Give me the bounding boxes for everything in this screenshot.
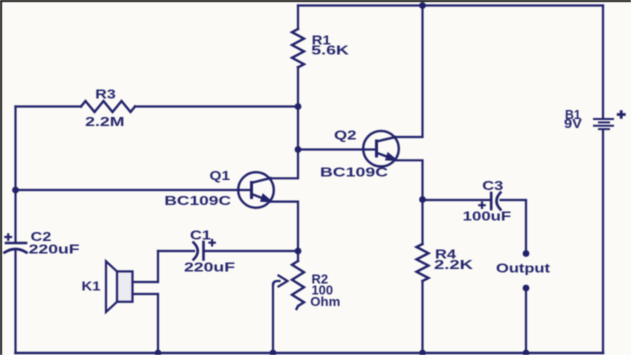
capacitor C1 straight plate [202,242,205,260]
wire: R2 top stub [297,251,299,261]
wire: R1 top stub from rail [297,6,299,30]
node: ground rail / R4 junction [419,350,426,355]
capacitor C2 bottom curved plate [5,249,27,253]
svg-text:R3: R3 [95,87,115,101]
resistor R1 5.6K zigzag [292,29,304,67]
svg-text:C1: C1 [190,229,211,243]
plus sign of battery [617,110,626,119]
wire: battery bottom segment to ground rail [602,130,604,354]
capacitor C3 straight plate [490,193,493,209]
svg-text:2.2K: 2.2K [434,258,473,272]
node: ground rail / speaker junction [155,350,162,355]
battery B1 9V [593,119,614,129]
wire: R2 wiper down to ground rail [272,284,274,353]
wire: R1 bottom to R3 junction [297,67,299,107]
svg-text:2.2M: 2.2M [85,115,124,129]
resistor R3 2.2M zigzag [81,101,135,112]
capacitor C3 curved plate [497,193,501,210]
svg-text:9V: 9V [564,117,583,131]
wire: R3 left segment [16,105,82,107]
plus sign of C3 [478,201,486,209]
node: left bus / Q1 base junction [12,187,19,194]
svg-text:BC109C: BC109C [164,194,231,208]
wire: speaker top terminal to C1 [133,251,159,282]
resistor R2 zigzag (variable) [292,261,304,309]
svg-text:K1: K1 [82,280,101,294]
top black border bar [0,0,631,2]
svg-text:5.6K: 5.6K [311,43,349,57]
wire: top positive supply rail [298,4,603,6]
wire: C1 right segment to junction [204,250,299,252]
node: Q1 emitter / C1 / R2 junction [295,248,302,255]
svg-text:220uF: 220uF [184,261,235,275]
svg-text:100uF: 100uF [463,209,512,223]
wire: left bus upper (R3 corner down to C2) [14,107,16,243]
wire: Q2 collector stub and up to top rail [397,6,423,138]
wiper arrow of R2 [273,276,288,287]
svg-text:Q1: Q1 [210,169,231,183]
node: ground rail / output junction [523,350,530,355]
svg-text:220uF: 220uF [29,242,80,256]
wire: Q1 base wire from left bus [16,189,252,191]
node: Q2 emitter / C3 / R4 junction [419,196,426,203]
svg-text:Ohm: Ohm [310,295,340,309]
wire: Q1 emitter stub and down to C1 junction [271,202,298,251]
transistor Q2 BC109C [363,131,399,167]
wire: C1 left segment [158,250,194,252]
wire: bottom ground rail [16,352,604,355]
node: Q1 collector / Q2 base junction [295,146,302,153]
resistor R4 2.2K zigzag [417,244,429,281]
capacitor C1 curved plate [194,243,198,260]
node: ground rail / R2 wiper junction [270,350,277,355]
wire: R4 top stub from C3 junction [421,200,423,245]
wire: Q2 base wire from junction [298,148,377,150]
wire: speaker bottom terminal to ground rail [133,294,159,353]
wire: Q2 emitter stub and down to C3 junction [397,160,423,199]
svg-text:C3: C3 [482,179,503,193]
node: R3 / R1 junction [295,103,302,110]
node: output terminal top [523,250,530,257]
plus sign of C1 [208,239,216,247]
wire: R3 right segment to column [135,105,298,107]
speaker K1 [106,261,133,312]
wire: output bottom terminal to ground rail [525,288,527,353]
wire: C3 right segment to output terminal [501,200,527,254]
left black border bar [0,0,2,355]
svg-text:BC109C: BC109C [320,166,388,180]
wire: C3 left segment from junction [423,199,491,201]
capacitor C2 top straight plate [6,242,26,245]
wire: left bus lower (C2 down to ground rail) [14,250,16,353]
wire: R4 bottom stub to ground rail [421,281,423,353]
wire: battery top segment from rail [602,6,604,119]
svg-text:Output: Output [496,261,551,275]
wire: Q1 collector stub and up to junction [271,150,298,179]
plus sign of C2 [4,233,12,241]
node: output terminal bottom [523,285,530,292]
svg-text:Q2: Q2 [334,128,357,142]
wire: column R3 junction down to Q1 collector junction [297,107,299,150]
node: top rail / Q2 collector junction [419,2,426,9]
transistor Q1 BC109C [238,172,274,208]
